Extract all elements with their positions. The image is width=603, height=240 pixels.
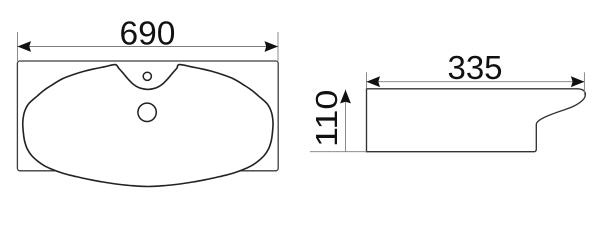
svg-text:690: 690 <box>120 15 176 52</box>
svg-text:110: 110 <box>311 90 345 147</box>
dimension 110: vertical dimension line <box>345 90 347 152</box>
side view: sink profile outline <box>367 89 586 152</box>
dimension 110: up arrowhead <box>340 90 351 104</box>
dimension 335: left extension line <box>366 72 368 89</box>
top view: sink outer rectangle <box>17 61 278 171</box>
top view: basin rim outline with overflow deck dip <box>23 65 273 187</box>
svg-text:335: 335 <box>447 49 502 86</box>
top view: overflow hole <box>143 72 151 80</box>
dimension 690: left arrowhead <box>17 41 31 52</box>
dimension 335: dimension line <box>367 81 585 83</box>
dimension 335: left arrowhead <box>366 76 380 87</box>
side view: bottom extension line <box>310 151 367 153</box>
dimension 690: dimension line <box>18 46 279 48</box>
dimension 335: right arrowhead <box>571 76 585 87</box>
dimension 335: right extension line <box>583 72 585 95</box>
dimension 690: right extension line <box>277 32 279 61</box>
dimension 690: left extension line <box>17 32 19 61</box>
dimension 690: right arrowhead <box>265 41 279 52</box>
top view: faucet hole <box>138 103 156 121</box>
